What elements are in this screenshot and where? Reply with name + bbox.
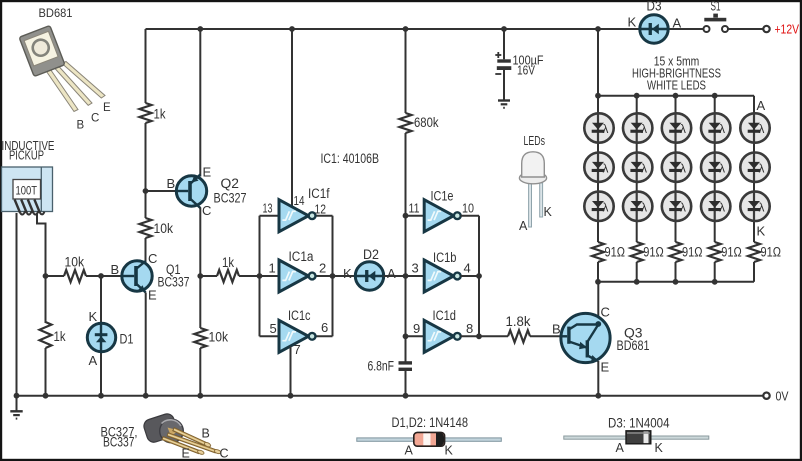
- svg-text:K: K: [757, 224, 766, 239]
- transistor Q3 BD681 (darlington): [561, 313, 610, 362]
- inverter IC1d: [424, 320, 460, 352]
- wire array rail to Q3 collector: [597, 282, 599, 324]
- svg-text:K: K: [343, 266, 352, 281]
- svg-text:D3: 1N4004: D3: 1N4004: [608, 416, 670, 431]
- wire supply to LED array: [597, 29, 599, 96]
- inverter IC1e: [424, 200, 460, 232]
- wire ground stub: [16, 396, 18, 412]
- svg-text:C: C: [202, 203, 211, 218]
- wire col4 to bottom rail: [714, 262, 716, 282]
- node top rail x598: [595, 26, 601, 32]
- resistor R 1k (top left): [140, 103, 152, 123]
- svg-text:B: B: [77, 120, 85, 132]
- svg-text:680k: 680k: [414, 115, 439, 130]
- resistor R 680k: [400, 113, 412, 133]
- inverter IC1f: [279, 200, 316, 232]
- wire collector node to 1k: [200, 275, 217, 277]
- node IC input node: [257, 273, 263, 279]
- svg-text:C: C: [220, 447, 229, 461]
- svg-text:1k: 1k: [154, 107, 166, 122]
- svg-text:8: 8: [466, 321, 473, 336]
- svg-text:D2: D2: [363, 247, 379, 262]
- svg-text:B: B: [111, 262, 120, 277]
- node 0V rail Q1e: [143, 393, 149, 399]
- inductive pickup coil: [2, 167, 53, 215]
- wire col1 to bottom rail: [597, 262, 599, 282]
- node right bus/IC1d: [476, 333, 482, 339]
- svg-text:+12V: +12V: [775, 23, 800, 37]
- svg-text:λ: λ: [759, 203, 765, 215]
- svg-text:λ: λ: [641, 163, 647, 175]
- node array bottom col4: [712, 279, 718, 285]
- 1N4148 package drawing: [357, 432, 502, 446]
- terminal +12V: [763, 26, 769, 32]
- wire bus to 1.8k: [479, 335, 508, 337]
- wire top rail S1-to-terminal: [728, 28, 763, 30]
- svg-text:10: 10: [462, 201, 474, 216]
- svg-text:B: B: [202, 427, 210, 441]
- svg-text:A: A: [519, 219, 528, 233]
- wire pickup right lead: [37, 213, 46, 276]
- wire Q1 emitter to 0V: [145, 293, 147, 396]
- terminal 0V: [763, 393, 769, 399]
- inverter IC1c: [279, 320, 316, 352]
- svg-text:K: K: [655, 441, 664, 455]
- svg-text:λ: λ: [603, 163, 609, 175]
- svg-text:A: A: [387, 266, 396, 281]
- diode D1: [87, 323, 115, 351]
- ground (100uF): [498, 101, 510, 108]
- wire timing vertical: [405, 133, 407, 362]
- resistor R 10k (bottom mid): [194, 328, 206, 348]
- wire pickup left lead: [16, 213, 18, 396]
- wire cap to ground: [503, 70, 505, 101]
- node 0V rail pickup: [14, 393, 20, 399]
- resistor R 1.8k: [508, 330, 530, 342]
- wire LED column 2: [636, 96, 638, 242]
- node timing/IC1e input: [403, 213, 409, 219]
- svg-text:λ: λ: [759, 124, 765, 136]
- LED D11 (col3 row2): [662, 153, 691, 182]
- LED D6 (col1 row3): [584, 192, 613, 221]
- wire 0V rail: [17, 395, 764, 397]
- wire IC1c output stub: [316, 335, 333, 337]
- BD681 package drawing: [19, 25, 105, 111]
- svg-text:IC1e: IC1e: [431, 189, 454, 204]
- node 0V rail D1: [98, 393, 104, 399]
- node 0V rail 6.8nF: [403, 393, 409, 399]
- LED D5 (col1 row2): [584, 153, 613, 182]
- wire Q3 emitter to 0V: [597, 361, 599, 396]
- svg-text:BC337: BC337: [158, 275, 190, 290]
- node 0V rail pin7: [288, 393, 294, 399]
- svg-text:10k: 10k: [65, 255, 85, 270]
- node IC output node: [330, 273, 336, 279]
- TO-92 package drawing (BC327/BC337): [142, 412, 221, 455]
- capacitor C 100uF 16V: [495, 52, 511, 74]
- LED D9 (col2 row3): [623, 192, 652, 221]
- wire col3 to bottom rail: [675, 262, 677, 282]
- wire 6.8nF to 0V: [405, 371, 407, 396]
- resistor R 91ohm col5: [748, 242, 760, 262]
- LED package drawing: [519, 152, 546, 227]
- transistor Q2 BC327: [176, 175, 206, 209]
- svg-text:IC1f: IC1f: [308, 186, 330, 201]
- svg-text:14: 14: [294, 193, 305, 208]
- svg-text:K: K: [89, 309, 98, 324]
- svg-text:C: C: [148, 251, 157, 266]
- node top rail x292: [289, 26, 295, 32]
- node top rail x504: [501, 26, 507, 32]
- node top rail x405: [403, 26, 409, 32]
- svg-text:E: E: [148, 288, 157, 303]
- svg-text:E: E: [182, 447, 190, 461]
- resistor R 91ohm col1: [592, 242, 604, 262]
- svg-text:13: 13: [263, 201, 273, 216]
- wire pickup junction to 10k: [46, 275, 65, 277]
- svg-text:A: A: [89, 353, 98, 368]
- svg-text:BC337: BC337: [103, 435, 135, 450]
- wire 1.8k to Q3 base: [530, 335, 562, 337]
- svg-text:C: C: [601, 305, 610, 320]
- LED D17 (col5 row2): [740, 153, 769, 182]
- svg-text:4: 4: [464, 261, 471, 276]
- wire left chain to Q1 collector: [145, 238, 147, 262]
- inverter IC1b: [424, 260, 460, 292]
- svg-text:91Ω: 91Ω: [605, 245, 626, 260]
- svg-text:BC327: BC327: [214, 191, 247, 206]
- svg-text:91Ω: 91Ω: [643, 245, 664, 260]
- wire right output bus: [478, 216, 480, 337]
- wire cap 100uF top: [503, 29, 505, 59]
- svg-text:λ: λ: [719, 163, 725, 175]
- svg-text:Q2: Q2: [221, 176, 240, 191]
- svg-text:12: 12: [315, 202, 327, 217]
- svg-text:λ: λ: [603, 203, 609, 215]
- resistor R 1k (bottom left): [40, 322, 52, 348]
- svg-text:1.8k: 1.8k: [506, 314, 531, 329]
- svg-text:D3: D3: [647, 0, 662, 14]
- wire +12V top rail (left section): [146, 28, 641, 30]
- svg-text:1k: 1k: [54, 329, 66, 344]
- svg-text:IC1d: IC1d: [433, 308, 457, 323]
- svg-text:λ: λ: [603, 124, 609, 136]
- svg-text:A: A: [405, 444, 414, 458]
- diode D2: [355, 262, 383, 290]
- svg-text:BD681: BD681: [617, 338, 650, 353]
- wire 10k to Q1 base: [86, 275, 122, 277]
- resistor R 91ohm col3: [670, 242, 682, 262]
- svg-text:A: A: [757, 98, 766, 113]
- wire Q2 base: [146, 190, 177, 192]
- svg-text:IC1b: IC1b: [433, 250, 457, 265]
- node timing/D2: [403, 273, 409, 279]
- svg-text:E: E: [203, 165, 212, 180]
- svg-text:A: A: [616, 441, 625, 455]
- svg-text:BD681: BD681: [39, 8, 73, 20]
- wire IC1e input stub: [406, 215, 425, 217]
- 1N4004 package drawing: [564, 431, 709, 444]
- svg-text:100T: 100T: [16, 186, 38, 198]
- node 0V rail 10k: [197, 393, 203, 399]
- wire 1k to 0V: [45, 348, 47, 396]
- node right bus/IC1b: [476, 273, 482, 279]
- node 0V rail 1k: [43, 393, 49, 399]
- node array bottom col3: [673, 279, 679, 285]
- wire LED column 1: [597, 96, 599, 242]
- resistor R 1k (IC input): [217, 270, 239, 282]
- svg-text:11: 11: [409, 201, 420, 216]
- wire IC1e output stub: [461, 215, 479, 217]
- transistor Q1 BC337: [122, 261, 152, 293]
- LED D14 (col4 row2): [701, 153, 730, 182]
- svg-text:1k: 1k: [222, 255, 234, 270]
- svg-text:A: A: [673, 16, 682, 31]
- wire IC1c input stub: [260, 335, 280, 337]
- LED D16 (col5 row1): [740, 113, 769, 142]
- wire D2 to timing node: [384, 275, 406, 277]
- wire IC1f input stub: [260, 215, 280, 217]
- wire output node to D2: [316, 275, 356, 277]
- wire col5 to bottom rail: [753, 262, 755, 282]
- svg-text:LEDs: LEDs: [524, 134, 546, 148]
- wire IC1b output stub: [461, 275, 479, 277]
- svg-text:λ: λ: [759, 163, 765, 175]
- node top rail x200: [197, 26, 203, 32]
- svg-text:λ: λ: [641, 124, 647, 136]
- svg-text:K: K: [544, 205, 553, 219]
- ground (main): [10, 411, 22, 418]
- wire timing node to IC1b: [406, 275, 425, 277]
- switch S1: [704, 14, 729, 32]
- wire LED array bottom rail: [598, 281, 754, 283]
- svg-text:3: 3: [412, 261, 419, 276]
- LED D10 (col3 row1): [662, 113, 691, 142]
- svg-text:6.8nF: 6.8nF: [368, 359, 395, 374]
- svg-text:λ: λ: [680, 203, 686, 215]
- LED D15 (col4 row3): [701, 192, 730, 221]
- wire Q2 emitter to rail: [199, 29, 201, 177]
- svg-text:9: 9: [413, 321, 420, 336]
- LED D18 (col5 row3): [740, 192, 769, 221]
- node array top col4: [712, 93, 718, 99]
- node 0V rail Q3e: [595, 393, 601, 399]
- svg-text:5: 5: [270, 321, 277, 336]
- wire IC1d input stub: [406, 335, 425, 337]
- svg-text:λ: λ: [641, 203, 647, 215]
- wire IC input bus: [259, 216, 261, 337]
- resistor R 10k (left mid): [140, 218, 152, 238]
- svg-text:2: 2: [319, 261, 326, 276]
- LED D8 (col2 row2): [623, 153, 652, 182]
- svg-text:10k: 10k: [209, 330, 229, 345]
- wire LED array top rail: [598, 95, 754, 97]
- svg-text:7: 7: [294, 342, 301, 357]
- node D1 branch junction: [98, 273, 104, 279]
- svg-text:WHITE LEDS: WHITE LEDS: [647, 79, 706, 93]
- svg-text:6: 6: [321, 320, 328, 335]
- wire IC1f output stub: [316, 215, 333, 217]
- svg-text:E: E: [103, 102, 111, 114]
- wire IC1f pin14 supply stub: [291, 29, 293, 207]
- node array bottom col2: [634, 279, 640, 285]
- svg-text:91Ω: 91Ω: [761, 245, 782, 260]
- resistor R 91ohm col2: [631, 242, 643, 262]
- svg-text:K: K: [628, 15, 637, 30]
- node pickup/1k junction: [43, 273, 49, 279]
- wire LED column 3: [675, 96, 677, 242]
- svg-text:B: B: [167, 176, 176, 191]
- svg-text:D1: D1: [120, 332, 134, 347]
- svg-text:91Ω: 91Ω: [682, 245, 703, 260]
- wire 10k to 0V: [199, 348, 201, 396]
- inverter IC1a: [279, 260, 316, 292]
- svg-text:C: C: [91, 113, 99, 125]
- wire top rail D3-to-S1: [668, 28, 704, 30]
- node array top col3: [673, 93, 679, 99]
- LED D12 (col3 row3): [662, 192, 691, 221]
- wire junction to 1k: [45, 276, 47, 323]
- node array top col2: [634, 93, 640, 99]
- svg-text:IC1: 40106B: IC1: 40106B: [321, 151, 380, 166]
- wire left chain top: [145, 29, 147, 103]
- LED D13 (col4 row1): [701, 113, 730, 142]
- wire LED column 5: [753, 96, 755, 242]
- resistor R 91ohm col4: [709, 242, 721, 262]
- svg-text:1: 1: [269, 261, 276, 276]
- wire left chain mid: [145, 123, 147, 218]
- svg-text:λ: λ: [680, 124, 686, 136]
- wire col2 to bottom rail: [636, 262, 638, 282]
- svg-text:λ: λ: [719, 203, 725, 215]
- svg-text:D1,D2: 1N4148: D1,D2: 1N4148: [392, 415, 469, 430]
- node array bottom col1: [595, 279, 601, 285]
- svg-text:0V: 0V: [776, 389, 789, 404]
- svg-text:16V: 16V: [517, 64, 536, 78]
- svg-text:IC1a: IC1a: [289, 249, 314, 264]
- node Q2 collector / 1k junction: [197, 273, 203, 279]
- diode D3: [640, 15, 668, 43]
- svg-text:K: K: [445, 444, 454, 458]
- wire IC1d output stub: [461, 335, 479, 337]
- wire D1 branch: [100, 276, 102, 396]
- wire IC1c pin7 stub to 0V: [290, 347, 292, 396]
- svg-text:PICKUP: PICKUP: [9, 149, 44, 163]
- node Q2 base junction: [143, 188, 149, 194]
- svg-text:B: B: [552, 322, 561, 337]
- LED D7 (col2 row1): [623, 113, 652, 142]
- svg-text:λ: λ: [680, 163, 686, 175]
- svg-text:91Ω: 91Ω: [721, 245, 742, 260]
- wire 1k to input node: [239, 275, 279, 277]
- wire 680k top: [405, 29, 407, 113]
- resistor R 10k (Q1 base): [64, 270, 86, 282]
- svg-text:S1: S1: [711, 0, 721, 14]
- node timing/IC1d input: [403, 333, 409, 339]
- node array top col1: [595, 93, 601, 99]
- wire Q2 collector down: [199, 208, 201, 329]
- svg-text:λ: λ: [719, 124, 725, 136]
- capacitor C 6.8nF: [399, 361, 413, 371]
- wire IC output bus: [332, 216, 334, 337]
- wire LED column 4: [714, 96, 716, 242]
- svg-text:IC1c: IC1c: [288, 308, 311, 323]
- LED D4 (col1 row1): [584, 113, 613, 142]
- svg-text:E: E: [601, 360, 610, 375]
- svg-text:10k: 10k: [154, 221, 174, 236]
